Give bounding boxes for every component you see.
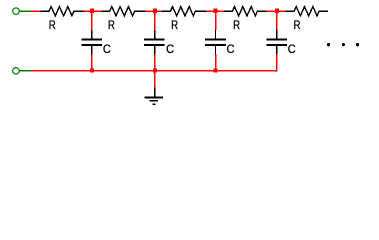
label R (R2 value): [108, 18, 115, 32]
svg-text:R: R: [294, 18, 301, 32]
wire (red drop from C1 to bottom rail): [91, 54, 93, 72]
node E (junction dot, bottom of C1): [90, 69, 94, 73]
wire (top rail: R4 to node D): [267, 10, 286, 12]
node G (junction dot, bottom of C3): [214, 69, 218, 73]
label R (R4 value): [233, 18, 240, 32]
wire (top rail: T1 to R1): [32, 10, 41, 12]
terminal T2 (bottom input, green open circle): [13, 68, 20, 75]
resistor R4: [224, 7, 267, 16]
label C (C2 value): [166, 42, 174, 56]
capacitor C1: [82, 30, 103, 54]
wire (red drop from node C to C3): [215, 11, 217, 30]
wire (top rail: R2 to node B): [146, 10, 163, 12]
label R (R3 value): [171, 18, 178, 32]
label R (R1 value): [49, 18, 56, 32]
svg-text:R: R: [49, 18, 56, 32]
wire (green stub from T1): [19, 10, 31, 12]
wire (red drop from C2 to bottom rail): [154, 54, 156, 72]
wire (red drop from node F to ground): [154, 71, 156, 88]
terminal T1 (top input, green open circle): [13, 8, 20, 15]
wire (red drop from C4 down to bottom rail corner): [276, 54, 278, 72]
label C (C1 value): [103, 42, 111, 56]
wire (top rail: R3 to node C): [206, 10, 224, 12]
node F (junction dot, bottom of C2 / ground tap): [153, 69, 157, 73]
resistor R3: [162, 7, 206, 16]
label C (C3 value): [227, 42, 235, 56]
svg-text:C: C: [103, 42, 111, 56]
node D (junction dot, top of C4): [275, 9, 279, 13]
ellipsis (circuit continues): [327, 43, 359, 46]
svg-text:C: C: [166, 42, 174, 56]
resistor R1: [41, 7, 84, 16]
capacitor C4: [267, 30, 288, 54]
svg-text:R: R: [233, 18, 240, 32]
wire (red drop from node A to C1): [91, 11, 93, 30]
node C (junction dot, top of C3): [214, 9, 218, 13]
svg-text:R: R: [171, 18, 178, 32]
wire (red drop from node B to C2): [154, 11, 156, 30]
svg-text:C: C: [227, 42, 235, 56]
wire (red drop from node D to C4): [276, 11, 278, 30]
resistor R2: [101, 7, 146, 16]
ground: [144, 88, 163, 105]
svg-text:R: R: [108, 18, 115, 32]
node B (junction dot, top of C2): [153, 9, 157, 13]
resistor R5: [286, 7, 328, 16]
wire (top rail: R1 to node A): [84, 10, 102, 12]
svg-text:C: C: [288, 42, 296, 56]
wire (green stub from T2): [19, 70, 32, 72]
wire (red drop from C3 to bottom rail): [215, 54, 217, 72]
capacitor C2: [144, 30, 165, 54]
wire (bottom rail): [32, 70, 277, 72]
capacitor C3: [205, 30, 226, 54]
node A (junction dot, top of C1): [90, 9, 94, 13]
label C (C4 value): [288, 42, 296, 56]
label R (R5 value): [294, 18, 301, 32]
